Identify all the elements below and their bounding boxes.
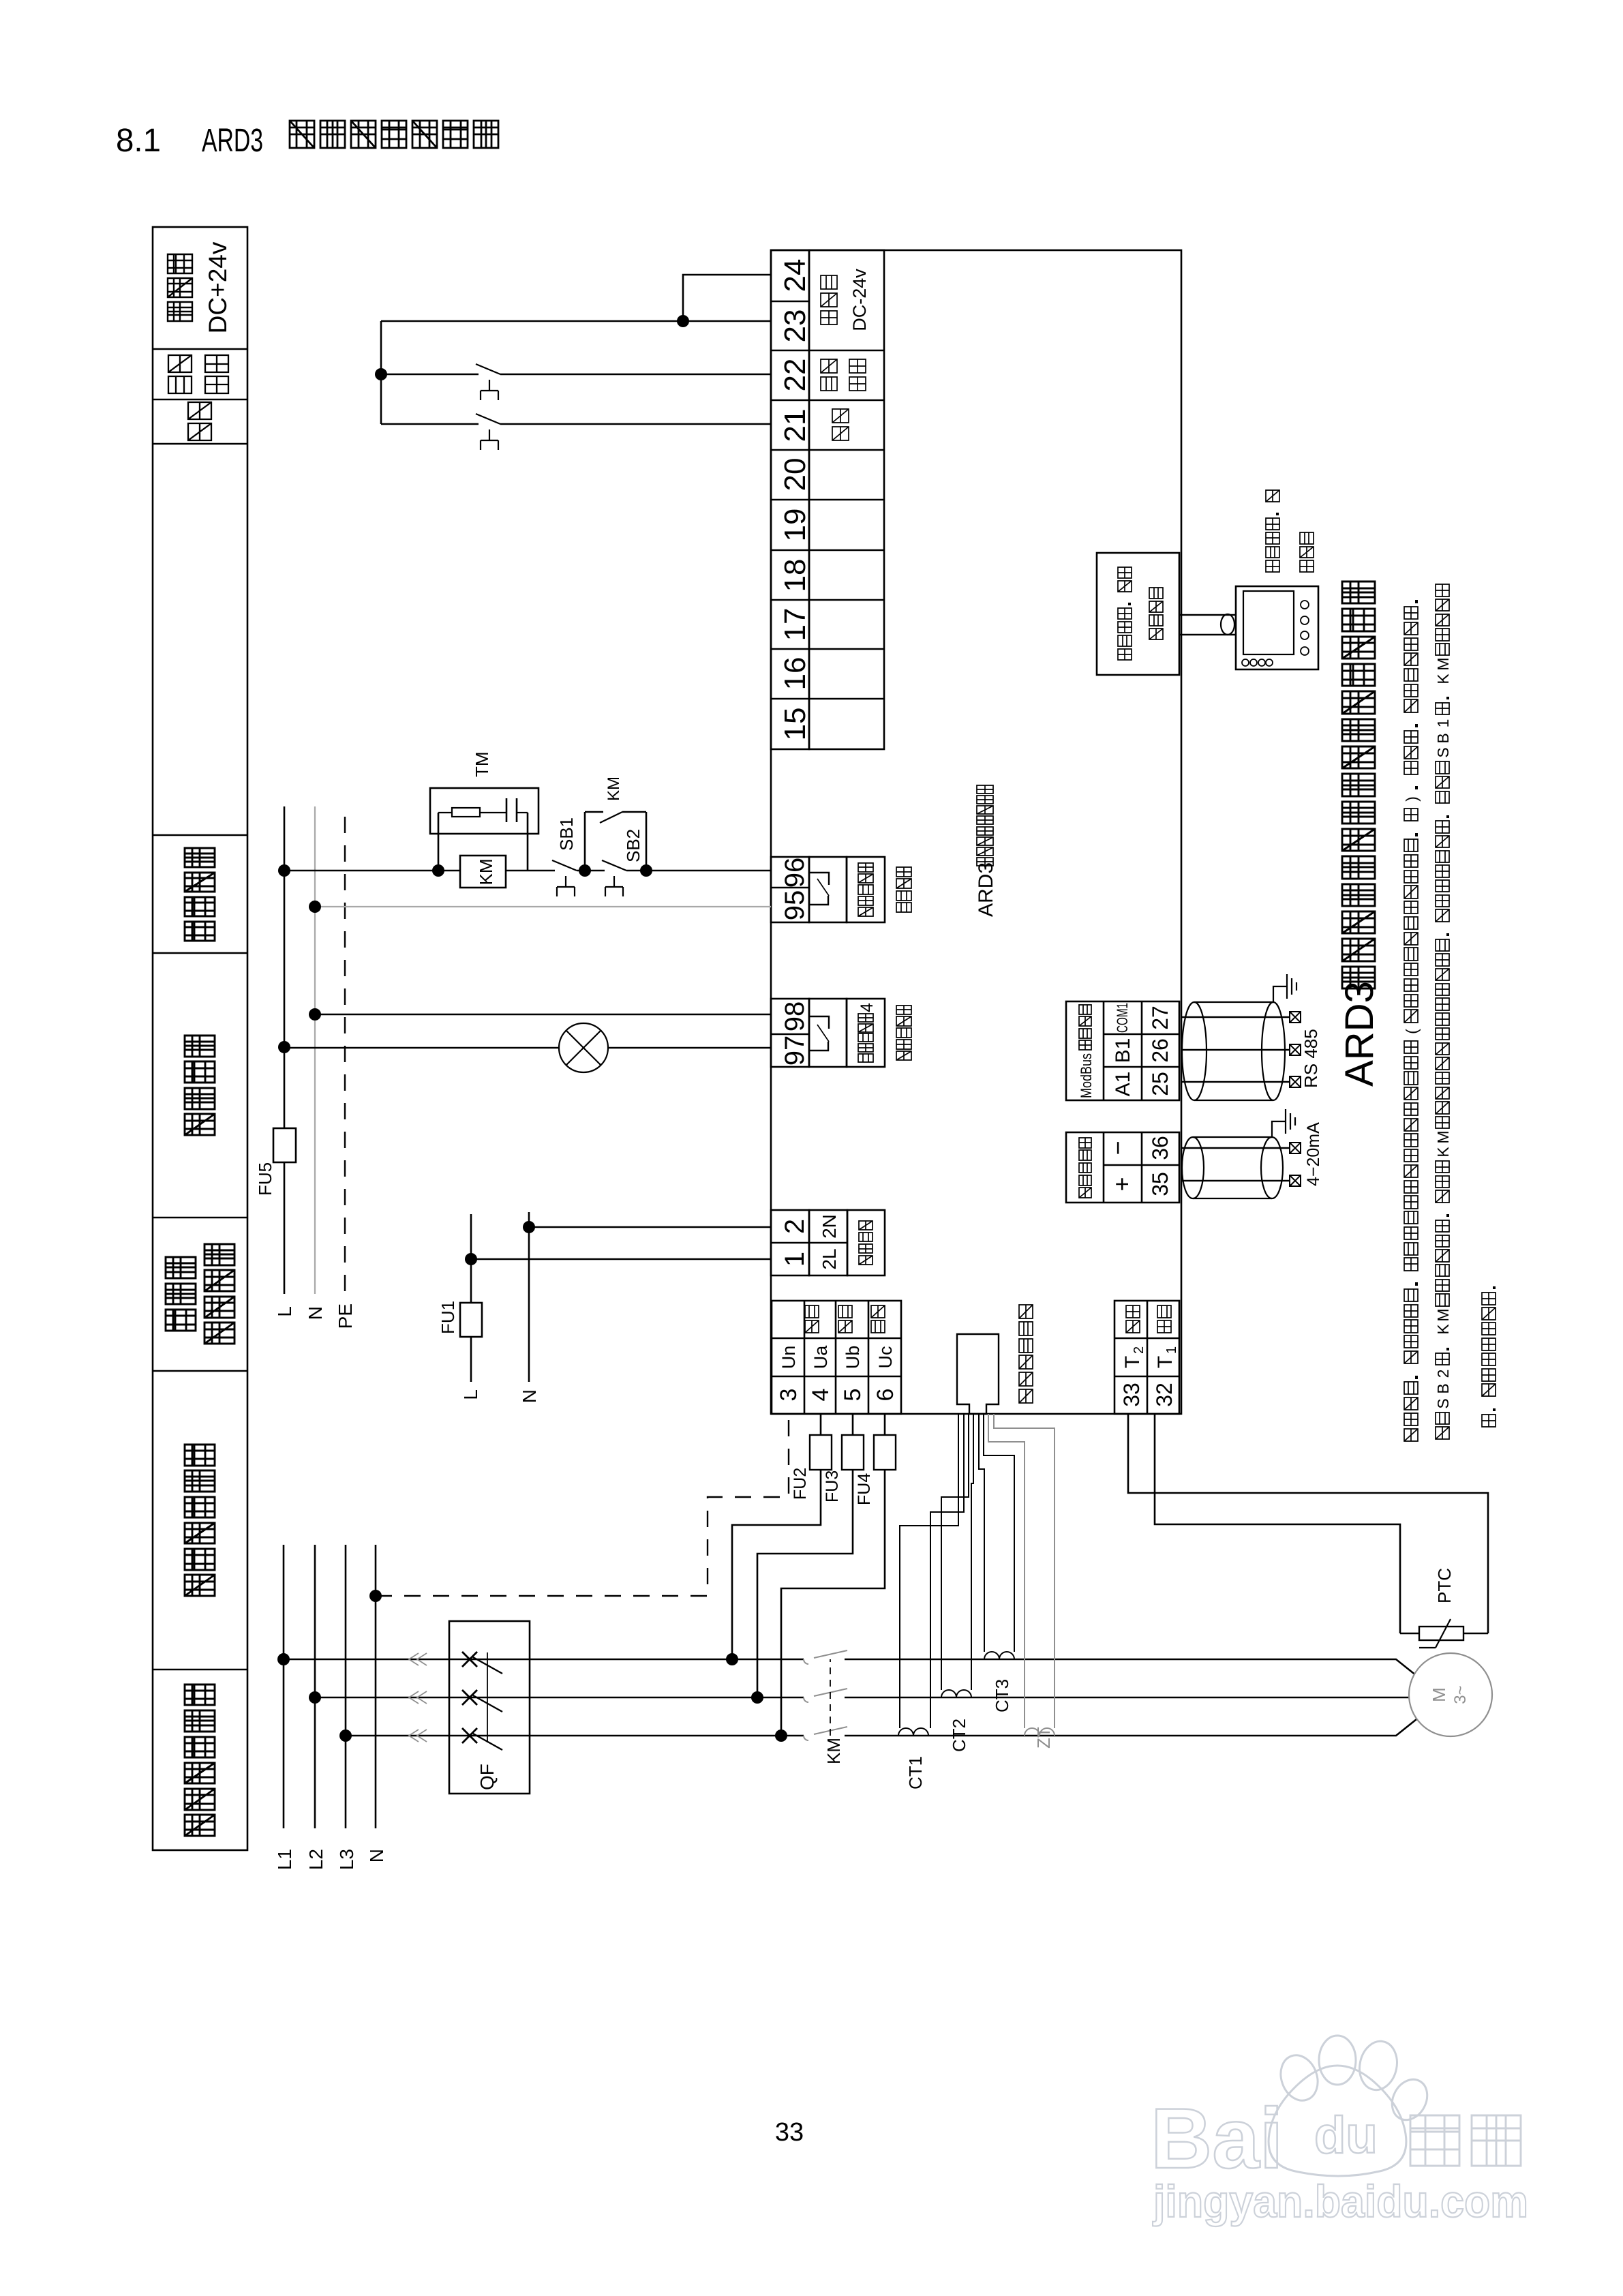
pushbutton SB1 stop on bus xyxy=(555,868,577,873)
current transformer CT3 xyxy=(984,1652,1014,1659)
svg-text:M: M xyxy=(1434,1308,1452,1321)
KM self-hold bypass branch xyxy=(584,812,586,871)
svg-text:FU3: FU3 xyxy=(823,1470,842,1502)
snubber capacitor xyxy=(506,798,508,822)
svg-text:8.1: 8.1 xyxy=(116,123,161,159)
junction node 22 tap xyxy=(375,368,387,380)
svg-text:ARD3: ARD3 xyxy=(1337,981,1382,1087)
svg-text:33: 33 xyxy=(1119,1383,1144,1407)
KM contactor coil xyxy=(460,856,506,888)
svg-text:RS 485: RS 485 xyxy=(1301,1029,1321,1088)
snubber branch bottom xyxy=(527,813,529,871)
band label current-signal-detection xyxy=(185,1815,215,1836)
svg-text:L3: L3 xyxy=(336,1849,357,1870)
svg-text:23: 23 xyxy=(778,309,812,343)
svg-text:B: B xyxy=(1434,1383,1452,1393)
svg-text:32: 32 xyxy=(1152,1383,1177,1407)
svg-text:ARD3: ARD3 xyxy=(202,123,263,159)
wire terminal 25 to RS485 xyxy=(1181,1081,1290,1083)
junction node 95-N xyxy=(309,901,321,913)
current signal input connector RJ45 xyxy=(957,1334,999,1414)
svg-text:98: 98 xyxy=(780,1001,810,1032)
module interface cable xyxy=(1179,634,1236,636)
svg-text:15: 15 xyxy=(778,708,812,741)
ZT secondary wires grey xyxy=(988,1414,1025,1728)
wire terminal 97 to rail L xyxy=(284,1047,771,1049)
svg-text:35: 35 xyxy=(1148,1172,1172,1196)
wire terminal 36 to 4-20mA xyxy=(1181,1147,1290,1149)
ARD3 protector main device box U1 xyxy=(771,250,1181,1414)
svg-text:4: 4 xyxy=(858,1003,877,1012)
paragraph line 2 xyxy=(1436,1427,1449,1439)
svg-text:KM: KM xyxy=(605,776,623,801)
junction node 2-N xyxy=(523,1221,535,1233)
wire terminal 23 drop xyxy=(381,320,771,322)
svg-text:KM: KM xyxy=(823,1738,844,1764)
wire terminal 95 grey to rail N xyxy=(315,906,771,907)
svg-text:A1: A1 xyxy=(1112,1072,1134,1097)
TM snubber box xyxy=(430,788,539,834)
svg-text:S: S xyxy=(1434,747,1452,757)
terminal strip 95/96 protection relay xyxy=(771,857,809,922)
svg-text:L: L xyxy=(460,1389,481,1400)
QF pole at 934 xyxy=(462,1652,477,1667)
svg-text:95: 95 xyxy=(780,890,810,921)
svg-text:N: N xyxy=(366,1849,387,1862)
terminal label emergency stop (22) xyxy=(821,377,837,391)
band label emergency stop xyxy=(168,376,192,393)
label temperature detection xyxy=(1126,1320,1140,1333)
wire terminal 33 to PTC xyxy=(1128,1414,1488,1633)
wire terminal 22 drop xyxy=(381,374,771,376)
svg-text:CT3: CT3 xyxy=(992,1679,1012,1712)
ground symbol 4-20mA shield xyxy=(1272,1121,1286,1137)
junction node bus-L xyxy=(278,864,290,877)
terminal strip 32/33 temperature detect xyxy=(1114,1301,1179,1414)
feeder L3 to motor xyxy=(346,1719,1416,1736)
dashed neutral link to terminal 3 xyxy=(369,1590,382,1602)
pushbutton NO reset on wire 21 xyxy=(479,422,500,426)
wire terminal 21 drop xyxy=(381,423,771,425)
svg-text:DC-24v: DC-24v xyxy=(849,269,870,331)
fuse FU3 xyxy=(842,1435,864,1470)
QF pole at 822 xyxy=(462,1728,477,1743)
svg-text:2: 2 xyxy=(1434,1370,1452,1378)
svg-text:3~: 3~ xyxy=(1451,1685,1470,1704)
phase rail L1 xyxy=(283,1545,285,1828)
junction node FU4-L3 xyxy=(775,1729,787,1742)
phase rail L2 xyxy=(314,1545,316,1828)
svg-text:4: 4 xyxy=(808,1389,834,1402)
svg-text:S: S xyxy=(1434,1398,1452,1408)
svg-text:K: K xyxy=(1434,1324,1452,1335)
ground symbol RS485 shield xyxy=(1273,986,1287,1002)
wire terminal 5 via FU3 to L2 xyxy=(757,1414,853,1697)
label protection relay xyxy=(858,907,873,916)
svg-text:PE: PE xyxy=(335,1303,356,1329)
motor M 3~ xyxy=(1409,1653,1492,1736)
aux supply rail L lower xyxy=(470,1214,472,1382)
aux supply rail PE dashed xyxy=(344,806,346,1291)
svg-text:24: 24 xyxy=(778,259,812,292)
label analog output xyxy=(1079,1188,1091,1198)
svg-text:4−20mA: 4−20mA xyxy=(1304,1122,1323,1186)
QF linkage xyxy=(487,1652,488,1742)
svg-text:N: N xyxy=(519,1389,540,1403)
ModBus communication port strip 25/26/27 xyxy=(1066,1001,1179,1100)
QF pole at 878 xyxy=(462,1690,477,1705)
svg-text:N: N xyxy=(305,1306,326,1320)
phase rail L3 xyxy=(345,1545,347,1828)
wire terminal 96 control bus xyxy=(284,870,771,872)
svg-text:L2: L2 xyxy=(305,1849,327,1870)
svg-text:): ) xyxy=(1403,796,1421,802)
svg-text:2N: 2N xyxy=(819,1214,840,1239)
wire terminal 1 to rail L xyxy=(471,1258,771,1260)
wire terminal 98 to rail N xyxy=(315,1014,771,1016)
label main relay (inside device) xyxy=(896,903,911,912)
svg-text:FU2: FU2 xyxy=(791,1468,810,1500)
snubber branch top xyxy=(438,813,440,871)
svg-text:Bai: Bai xyxy=(1151,2091,1284,2186)
label power input xyxy=(859,1256,873,1265)
terminal label reset (21) xyxy=(832,427,849,440)
label remote display operation module xyxy=(1266,560,1279,572)
svg-text:M: M xyxy=(1429,1687,1449,1702)
cable continuation chevrons xyxy=(409,1729,419,1742)
paragraph line 1 xyxy=(1404,1429,1418,1441)
terminal strip 97/98 output relay 4 xyxy=(771,999,809,1067)
svg-text:6: 6 xyxy=(873,1389,898,1402)
svg-text:25: 25 xyxy=(1148,1072,1172,1096)
band label fault output xyxy=(185,1114,215,1135)
remote display operation module xyxy=(1236,586,1318,669)
svg-text:96: 96 xyxy=(780,858,810,888)
svg-text:T: T xyxy=(1154,1356,1177,1368)
svg-text:CT2: CT2 xyxy=(949,1719,969,1752)
svg-text:36: 36 xyxy=(1148,1136,1172,1160)
svg-text:1: 1 xyxy=(1434,719,1452,728)
paragraph line 3 xyxy=(1482,1415,1496,1427)
junction node 98-N xyxy=(309,1008,321,1021)
junction node 97-L xyxy=(278,1041,290,1053)
svg-text:QF: QF xyxy=(476,1764,498,1790)
svg-text:21: 21 xyxy=(778,409,812,442)
wire terminal 24 drop xyxy=(683,275,771,321)
svg-text:TM: TM xyxy=(472,751,492,777)
svg-text:K: K xyxy=(1434,1147,1452,1158)
junction node 24-23 xyxy=(677,315,689,327)
leakage transformer ZT grey xyxy=(1025,1728,1055,1736)
wire terminal 27 to RS485 xyxy=(1181,1016,1290,1018)
svg-text:27: 27 xyxy=(1148,1006,1172,1030)
svg-text:FU5: FU5 xyxy=(255,1162,275,1196)
fuse FU1 on lower rail L xyxy=(460,1303,482,1337)
terminal label common DC-24v (23,24) xyxy=(821,311,837,324)
band label voltage-signal-detection xyxy=(185,1575,215,1596)
feeder L1 to motor xyxy=(284,1659,1416,1676)
aux supply rail N xyxy=(314,806,316,1294)
svg-text:L: L xyxy=(274,1306,295,1317)
svg-text:18: 18 xyxy=(778,559,812,592)
junction node TM top xyxy=(432,864,444,877)
svg-text:Ua: Ua xyxy=(810,1345,831,1369)
svg-text:L1: L1 xyxy=(274,1849,295,1870)
svg-text:PTC: PTC xyxy=(1434,1568,1455,1603)
pushbutton NC emergency stop on wire 22 xyxy=(479,372,500,376)
svg-text:+: + xyxy=(1108,1177,1136,1191)
fuse FU5 on rail L xyxy=(273,1128,296,1162)
junction node FU3-L2 xyxy=(751,1691,763,1704)
svg-text:17: 17 xyxy=(778,608,812,641)
CT secondary wires xyxy=(900,1414,958,1728)
feeder L2 to motor xyxy=(315,1697,1409,1699)
Baidu Jingyan watermark logo xyxy=(1151,2036,1434,2186)
svg-text:Uc: Uc xyxy=(875,1346,896,1369)
label current signal input xyxy=(1019,1389,1033,1403)
PTC thermistor xyxy=(1400,1633,1419,1634)
svg-text:(: ( xyxy=(1403,1029,1421,1034)
phase rail N xyxy=(375,1545,377,1828)
relay contact symbol (protection relay) xyxy=(810,873,829,885)
current transformer CT2 xyxy=(941,1690,971,1697)
remote display module interface box xyxy=(1097,553,1179,675)
svg-text:−: − xyxy=(1104,1141,1132,1155)
svg-text:33: 33 xyxy=(775,2118,804,2147)
svg-text:1: 1 xyxy=(1164,1346,1179,1354)
svg-text:Ub: Ub xyxy=(843,1346,863,1370)
svg-text:B1: B1 xyxy=(1112,1038,1134,1063)
4-20mA terminator boxes xyxy=(1290,1175,1301,1186)
svg-text:5: 5 xyxy=(840,1389,866,1402)
wire terminal 2 to rail N xyxy=(529,1226,771,1228)
KM main contacts on feeders xyxy=(804,1734,845,1738)
svg-text:22: 22 xyxy=(778,359,812,392)
svg-text:COM1: COM1 xyxy=(1114,1003,1131,1033)
svg-text:FU1: FU1 xyxy=(438,1301,458,1334)
KM linkage dashed xyxy=(830,1659,831,1736)
svg-text:16: 16 xyxy=(778,657,812,691)
svg-text:26: 26 xyxy=(1148,1038,1172,1063)
aux supply rail N lower xyxy=(528,1212,530,1382)
KM auxiliary contact on bypass xyxy=(603,810,622,814)
wire terminal 32 to PTC xyxy=(1155,1414,1400,1633)
pushbutton SB2 start on bus xyxy=(605,868,626,873)
relay contact symbol (alarm relay) xyxy=(810,1016,829,1029)
svg-text:ModBus: ModBus xyxy=(1078,1053,1095,1098)
terminal strip 15-24 numbers row xyxy=(771,250,809,749)
indicator lamp on wire 97 xyxy=(559,1023,608,1072)
RS485 terminator boxes xyxy=(1290,1076,1301,1087)
svg-text:ARD3: ARD3 xyxy=(975,862,997,917)
svg-text:du: du xyxy=(1314,2106,1378,2164)
analog output strip 35/36 xyxy=(1066,1132,1179,1203)
svg-text:B: B xyxy=(1434,733,1452,743)
label output relay 4 xyxy=(858,1054,873,1062)
fuse FU4 xyxy=(874,1435,896,1470)
svg-text:SB2: SB2 xyxy=(623,829,643,862)
band label main relay xyxy=(185,922,215,941)
svg-text:K: K xyxy=(1434,674,1452,684)
terminal strip 3-6 voltage signal input xyxy=(772,1301,901,1414)
svg-text:97: 97 xyxy=(780,1036,810,1066)
wire terminal 6 via FU4 to L3 xyxy=(781,1414,885,1736)
aux supply rail L xyxy=(284,806,286,1294)
svg-text:KM: KM xyxy=(476,859,496,886)
svg-text:20: 20 xyxy=(778,458,812,492)
wire top connector 21-22-23 xyxy=(380,321,382,424)
label alarm relay (inside device) xyxy=(896,1051,911,1060)
snubber resistor xyxy=(438,812,452,813)
svg-text:1: 1 xyxy=(780,1252,810,1267)
circuit breaker QF xyxy=(449,1621,530,1794)
svg-text:2: 2 xyxy=(1132,1346,1147,1354)
RS485 shielded cable cylinder xyxy=(1182,1002,1207,1100)
current transformer CT1 xyxy=(898,1728,928,1736)
terminal strip 1/2 power input xyxy=(771,1210,809,1275)
svg-text:DC+24v: DC+24v xyxy=(204,241,232,333)
svg-text:M: M xyxy=(1434,657,1452,670)
svg-text:jingyan.baidu.com: jingyan.baidu.com xyxy=(1152,2176,1528,2226)
svg-text:2: 2 xyxy=(780,1219,810,1234)
function header band (left column in portrait) xyxy=(153,227,247,1850)
svg-text:M: M xyxy=(1434,1130,1452,1143)
4-20mA shielded cable cylinder xyxy=(1182,1137,1204,1198)
svg-text:T: T xyxy=(1121,1356,1144,1368)
svg-text:19: 19 xyxy=(778,509,812,542)
junction node 1-L xyxy=(465,1253,477,1265)
wire terminal 26 to RS485 xyxy=(1181,1049,1290,1051)
svg-text:SB1: SB1 xyxy=(556,817,577,851)
svg-text:Un: Un xyxy=(778,1346,799,1370)
svg-text:2L: 2L xyxy=(819,1248,840,1269)
wire terminal 4 via FU2 to L1 xyxy=(732,1414,821,1659)
svg-text:3: 3 xyxy=(776,1389,802,1402)
label voltage signal input xyxy=(805,1320,819,1333)
band label reset xyxy=(188,423,211,440)
wire terminal 35 to 4-20mA xyxy=(1181,1180,1290,1182)
band label controller aux power xyxy=(166,1310,196,1331)
svg-text:CT1: CT1 xyxy=(905,1756,926,1789)
svg-text:FU4: FU4 xyxy=(855,1473,874,1505)
svg-text:ZT: ZT xyxy=(1033,1727,1054,1749)
junction node FU2-L1 xyxy=(726,1653,738,1665)
band label common DC+24v xyxy=(168,302,192,321)
fuse FU2 xyxy=(810,1435,832,1470)
